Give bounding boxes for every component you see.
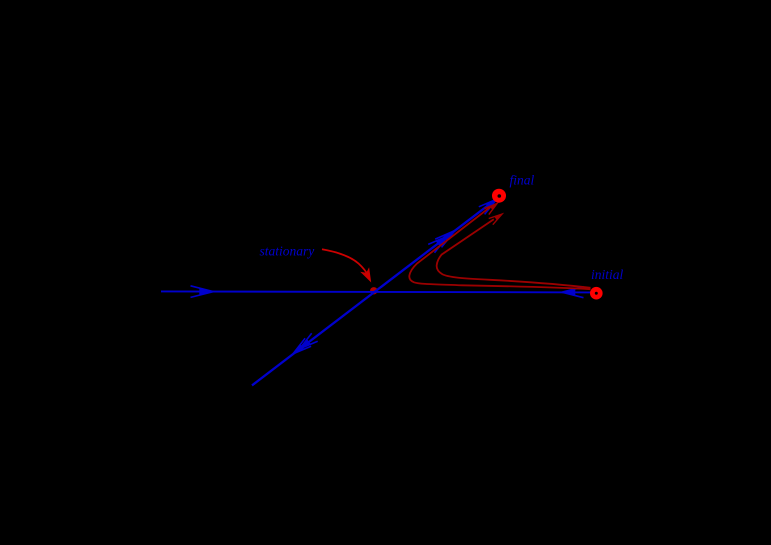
arrowhead up-right 2 on diagonal: [428, 236, 448, 253]
node stationary point (red dot): [370, 287, 377, 294]
arrowhead right on horizontal line: [191, 286, 214, 298]
node initial point (red dot): [590, 287, 603, 300]
annotation arrow from stationary label: [322, 249, 368, 275]
arrowhead down-left 1 on diagonal: [293, 338, 311, 354]
node final point (red dot): [492, 189, 506, 203]
arrowhead left near initial point: [562, 287, 584, 298]
trajectory B curve (initial toward final, inner hook): [437, 219, 591, 287]
trajectory A curve (initial to final, outer hook): [409, 207, 590, 290]
wire stable-manifold horizontal line: [161, 291, 591, 292]
svg-text:final: final: [510, 172, 535, 187]
arrowhead down-left 2 on diagonal: [300, 333, 318, 349]
arrowhead trajectory A: [484, 203, 497, 214]
svg-text:initial: initial: [591, 267, 624, 282]
arrowhead annotation arrow: [360, 267, 371, 282]
arrowhead at final end of diagonal: [479, 199, 497, 214]
svg-text:stationary: stationary: [260, 244, 315, 259]
arrowhead trajectory B: [489, 214, 502, 225]
wire unstable-manifold diagonal line: [252, 199, 497, 386]
arrowhead up-right 1 on diagonal: [435, 231, 455, 248]
